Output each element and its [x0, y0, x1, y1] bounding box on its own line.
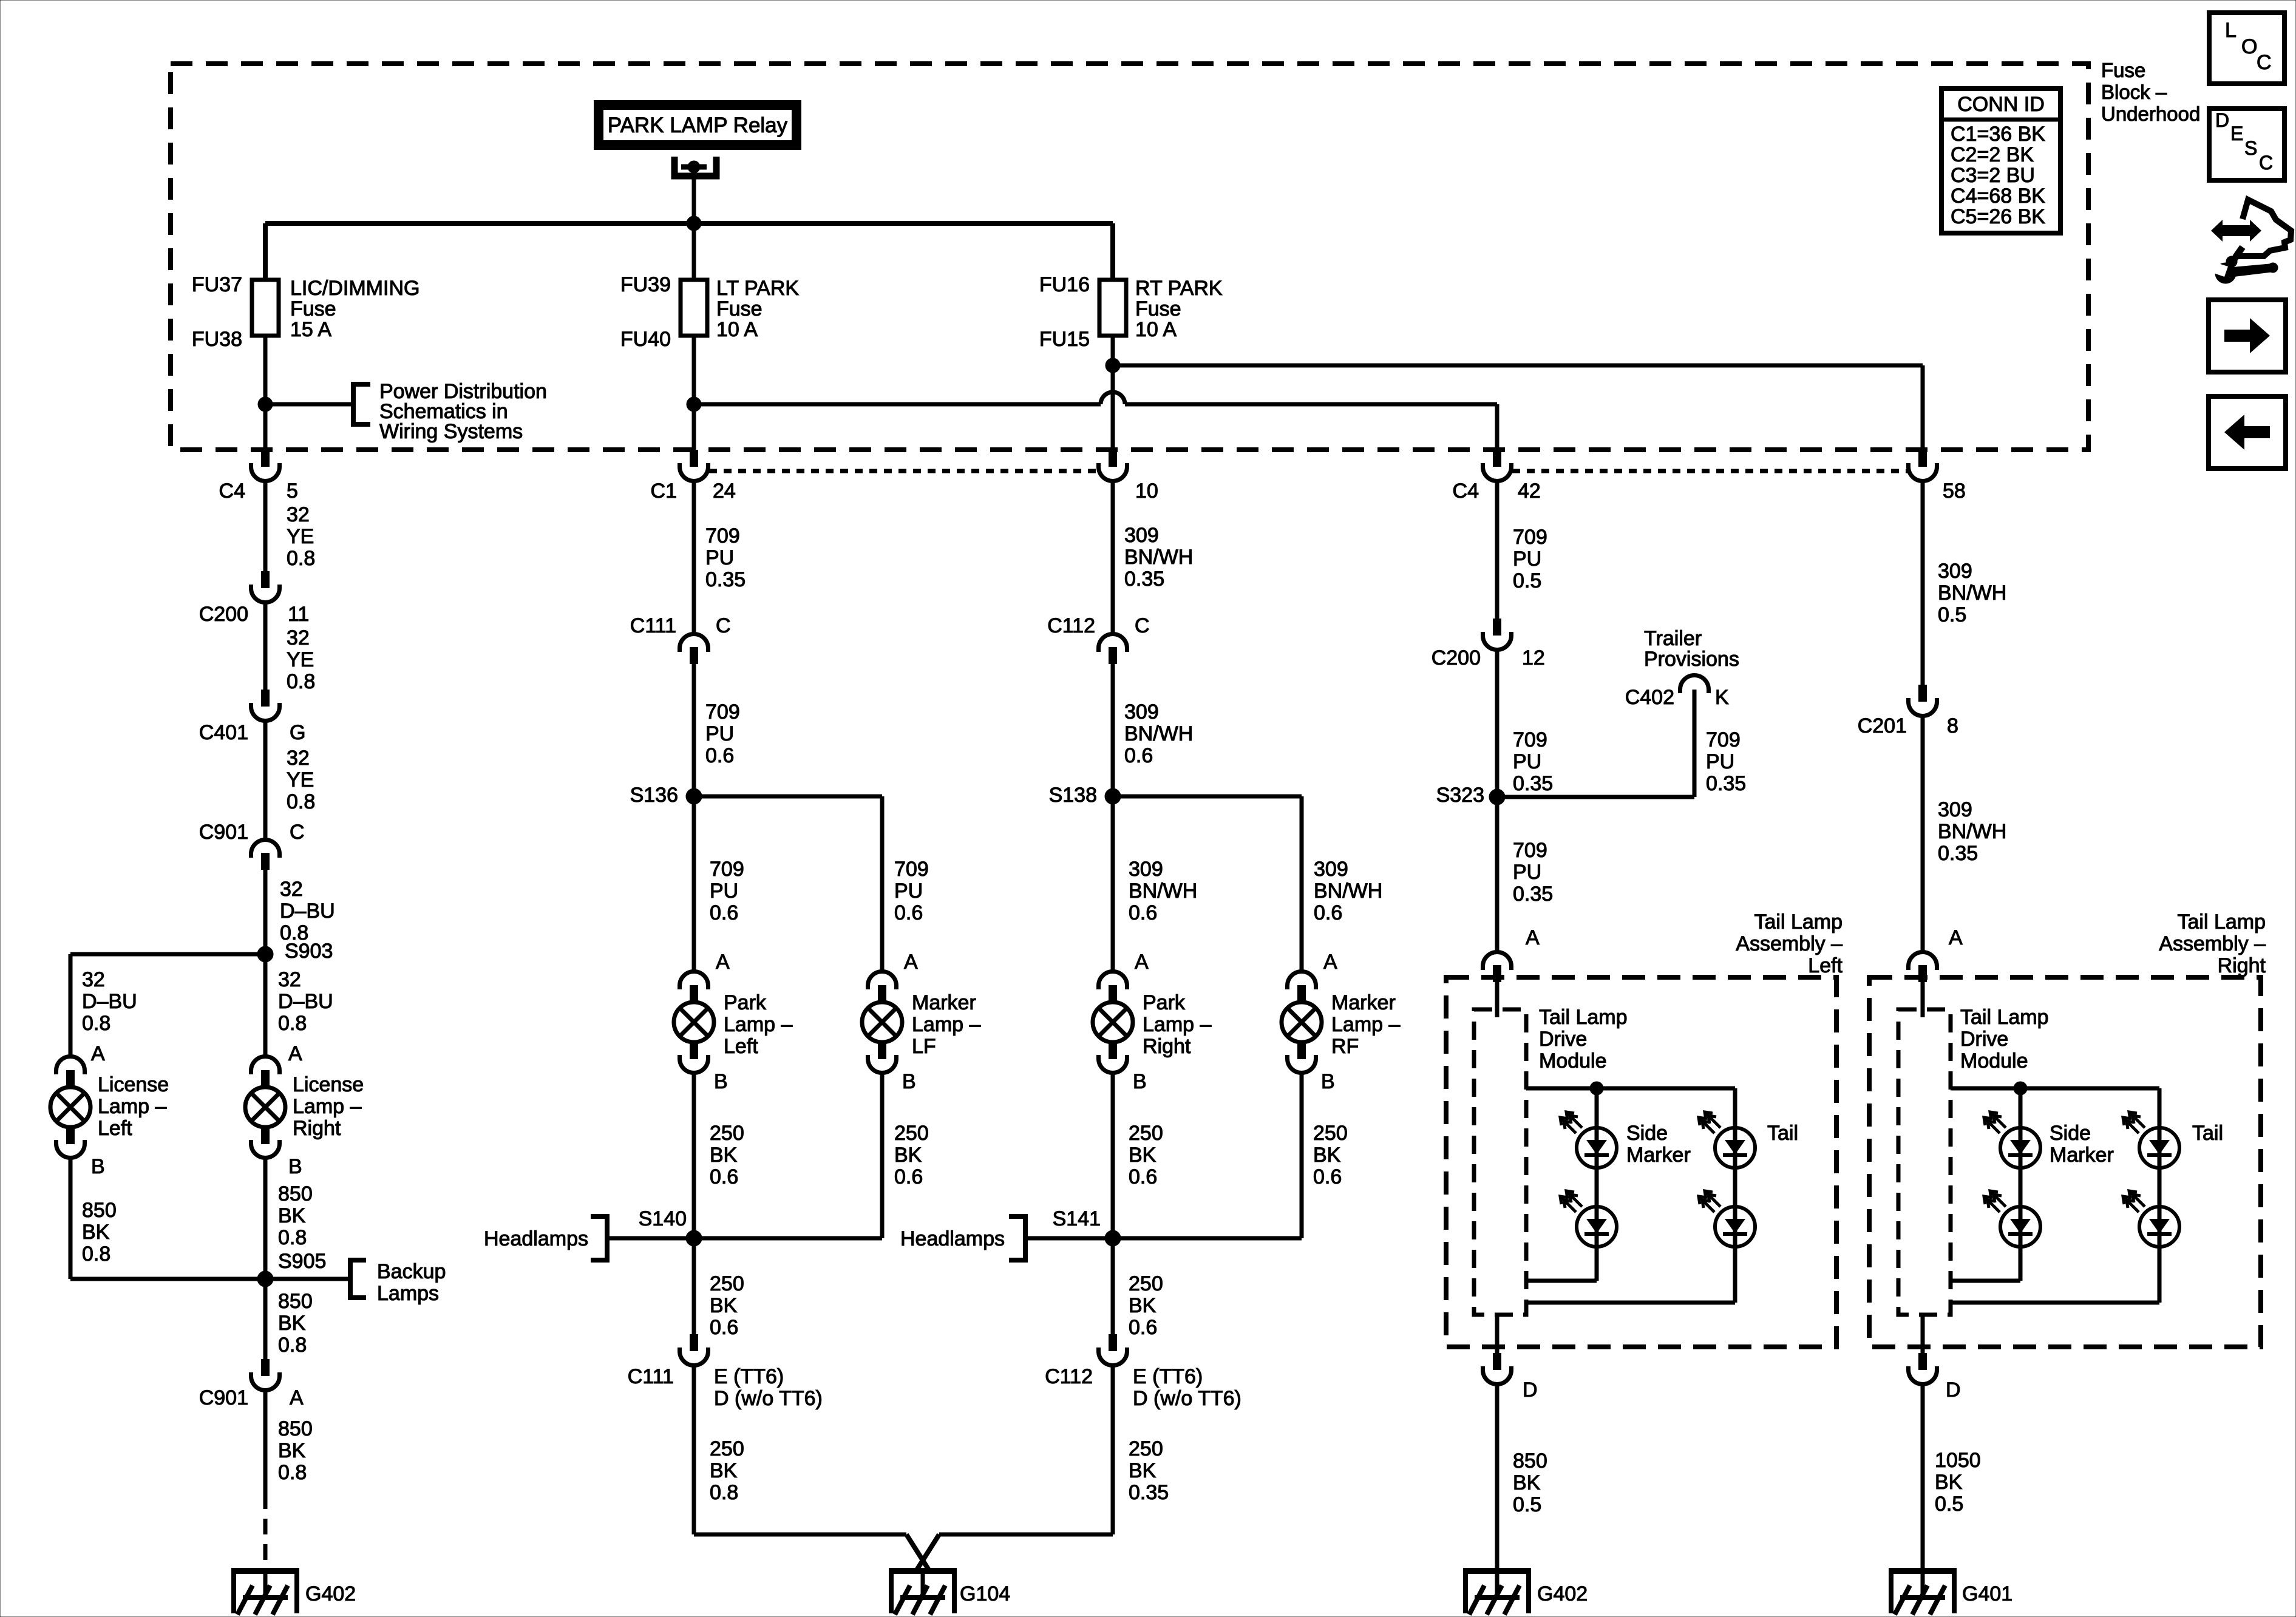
terminal A license right [288, 1042, 302, 1065]
wire 850 BK 0.5 [1497, 1385, 1547, 1568]
svg-text:S138: S138 [1049, 784, 1097, 807]
svg-text:0.8: 0.8 [278, 1012, 307, 1035]
svg-text:Headlamps: Headlamps [900, 1227, 1005, 1250]
svg-text:G402: G402 [1537, 1582, 1588, 1605]
svg-text:11: 11 [288, 603, 309, 626]
svg-text:Lamp –: Lamp – [98, 1095, 166, 1118]
svg-text:BK: BK [278, 1312, 306, 1335]
tail LED string right [1951, 1088, 2159, 1303]
svg-text:32: 32 [280, 878, 303, 901]
wire S903 to license lamp right [265, 954, 333, 1056]
svg-text:32: 32 [82, 968, 105, 991]
forward arrow icon box [2209, 300, 2286, 372]
wire S138 to park lamp right [1113, 796, 1197, 971]
svg-text:PARK LAMP Relay: PARK LAMP Relay [608, 114, 788, 137]
svg-text:D: D [1523, 1378, 1538, 1402]
wire into module right [1921, 982, 1925, 1017]
lamp Park Lamp - Left [674, 972, 792, 1073]
terminal A marker RF [1323, 951, 1337, 974]
svg-text:A: A [290, 1386, 304, 1409]
svg-text:0.6: 0.6 [1129, 1165, 1157, 1188]
svg-text:250: 250 [1129, 1437, 1163, 1460]
svg-text:Marker: Marker [2050, 1144, 2114, 1167]
svg-text:Marker: Marker [1626, 1144, 1691, 1167]
svg-text:309: 309 [1124, 524, 1159, 547]
wire LT park feed to C4-42 with hop [694, 392, 1497, 450]
svg-text:250: 250 [710, 1437, 744, 1460]
svg-text:BK: BK [1935, 1471, 1963, 1494]
svg-text:B: B [288, 1155, 302, 1178]
connector D left [1483, 1353, 1538, 1402]
svg-text:0.5: 0.5 [1938, 603, 1966, 626]
wire 709 PU 0.5 [1497, 480, 1547, 619]
wire S136 to park lamp left [694, 796, 744, 971]
svg-text:PU: PU [705, 722, 734, 745]
svg-text:Marker: Marker [912, 991, 976, 1014]
svg-text:FU38: FU38 [192, 328, 242, 351]
connector C4 pin 5 [219, 450, 298, 503]
connector C112 pin C [1047, 614, 1149, 664]
svg-text:LF: LF [912, 1035, 936, 1058]
LED tail 2 right [2123, 1191, 2179, 1247]
DESC icon box [2209, 109, 2284, 180]
svg-text:CONN ID: CONN ID [1957, 93, 2045, 116]
svg-text:PU: PU [1706, 750, 1734, 773]
svg-text:C112: C112 [1047, 614, 1095, 637]
wire 709 PU 0.35 [694, 480, 746, 634]
svg-text:0.35: 0.35 [1124, 568, 1164, 591]
svg-text:License: License [98, 1073, 169, 1096]
label side marker right [2050, 1122, 2114, 1167]
wire 850 BK 0.8 below S905 [265, 1279, 313, 1359]
fuse FU16/FU15 RT PARK 10A [1039, 273, 1223, 351]
wire RT fuse to border [1111, 336, 1115, 450]
svg-text:D: D [1946, 1378, 1961, 1402]
svg-text:BN/WH: BN/WH [1938, 581, 2006, 605]
lamp Marker Lamp - RF [1282, 972, 1400, 1073]
wire 709 PU 0.35 below S323 [1497, 797, 1553, 952]
ground G402 left [231, 1568, 356, 1615]
connector C200 pin 12 [1432, 619, 1545, 670]
svg-text:PU: PU [1513, 750, 1541, 773]
svg-text:Marker: Marker [1331, 991, 1396, 1014]
LED side marker 2 left [1560, 1191, 1617, 1247]
svg-text:Headlamps: Headlamps [484, 1227, 588, 1250]
svg-text:C: C [716, 614, 731, 637]
svg-text:309: 309 [1938, 798, 1972, 821]
svg-text:309: 309 [1124, 700, 1159, 724]
splice S141 [1053, 1207, 1121, 1246]
svg-text:C: C [290, 821, 305, 844]
lamp License Lamp - Left [50, 1057, 169, 1158]
svg-text:RF: RF [1331, 1035, 1359, 1058]
svg-text:B: B [714, 1070, 728, 1093]
svg-text:C901: C901 [199, 821, 248, 844]
svg-text:C111: C111 [628, 1365, 674, 1388]
svg-text:B: B [1133, 1070, 1147, 1093]
bracket backup lamps [350, 1260, 446, 1305]
LED tail 1 left [1699, 1112, 1755, 1168]
svg-text:D–BU: D–BU [278, 990, 333, 1013]
terminal B park right [1133, 1070, 1147, 1093]
svg-text:709: 709 [894, 858, 929, 881]
wire G104 right approach [916, 1534, 1113, 1571]
splice S903 [257, 940, 333, 963]
wire S138 branch to marker RF [1113, 796, 1382, 971]
svg-text:Underhood: Underhood [2101, 103, 2200, 125]
wire 850 BK 0.8 to ground [265, 1391, 313, 1493]
svg-text:C200: C200 [1432, 646, 1481, 670]
svg-text:Assembly –: Assembly – [1736, 932, 1843, 955]
connector C901 pin A [199, 1359, 304, 1409]
junction relay bus [687, 216, 701, 231]
connector C401 pin G [199, 690, 306, 744]
svg-text:0.35: 0.35 [1706, 772, 1746, 795]
svg-text:B: B [902, 1070, 916, 1093]
wire module right to D [1921, 1315, 1925, 1353]
svg-text:0.6: 0.6 [1314, 901, 1342, 924]
svg-text:0.6: 0.6 [710, 1316, 738, 1339]
LED side marker 1 right [1984, 1112, 2040, 1168]
svg-text:309: 309 [1938, 560, 1972, 583]
svg-text:0.8: 0.8 [82, 1012, 110, 1035]
svg-text:0.35: 0.35 [1129, 1481, 1169, 1504]
ground G104 [889, 1568, 1010, 1615]
wire 32 YE 0.8 seg2 [265, 603, 315, 693]
splice S905 [257, 1250, 326, 1287]
wire 250 BK 0.6 park right [1113, 1073, 1163, 1238]
svg-text:A: A [288, 1042, 302, 1065]
svg-text:0.6: 0.6 [710, 1165, 738, 1188]
svg-text:32: 32 [278, 968, 301, 991]
splice S323 [1436, 784, 1505, 807]
svg-text:D–BU: D–BU [280, 900, 335, 923]
svg-text:32: 32 [287, 626, 310, 649]
svg-text:Side: Side [1626, 1122, 1668, 1145]
relay PARK LAMP Relay [599, 105, 796, 145]
wire 309 BN/WH 0.35 [1113, 480, 1193, 634]
svg-text:Lamp –: Lamp – [1143, 1013, 1211, 1036]
terminal B license left [91, 1155, 105, 1178]
label tail left [1767, 1122, 1798, 1145]
svg-text:BK: BK [1129, 1459, 1156, 1482]
svg-text:0.6: 0.6 [710, 901, 738, 924]
svg-text:BK: BK [1129, 1294, 1156, 1317]
svg-text:C: C [2257, 51, 2272, 74]
svg-text:Trailer: Trailer [1644, 627, 1702, 650]
terminal B marker LF [902, 1070, 916, 1093]
svg-text:YE: YE [287, 768, 314, 792]
lamp Park Lamp - Right [1093, 972, 1211, 1073]
svg-text:BK: BK [278, 1439, 306, 1462]
svg-text:FU39: FU39 [620, 273, 671, 296]
svg-text:Park: Park [1143, 991, 1186, 1014]
svg-text:Wiring Systems: Wiring Systems [379, 420, 523, 443]
svg-text:Side: Side [2050, 1122, 2091, 1145]
svg-text:Lamp –: Lamp – [724, 1013, 792, 1036]
connector C1 pin 24 [651, 450, 736, 503]
svg-text:5: 5 [287, 480, 298, 503]
svg-text:0.8: 0.8 [278, 1226, 307, 1249]
wire 709 PU 0.35 trailer branch [1497, 690, 1746, 797]
svg-text:709: 709 [705, 700, 740, 724]
svg-text:Left: Left [1808, 954, 1843, 977]
svg-text:709: 709 [710, 858, 744, 881]
svg-text:8: 8 [1947, 714, 1958, 737]
svg-text:D (w/o TT6): D (w/o TT6) [714, 1387, 823, 1410]
dashed wire to G402 [263, 1493, 268, 1568]
svg-text:Left: Left [98, 1117, 132, 1140]
svg-text:1050: 1050 [1935, 1449, 1981, 1472]
LED bus right assembly [1951, 1086, 2159, 1091]
svg-text:C5=26 BK: C5=26 BK [1951, 205, 2045, 228]
wire 250 BK 0.6 below S140 [694, 1238, 744, 1339]
connector C111 pin E/D [628, 1334, 823, 1410]
wire 250 BK 0.6 marker LF [694, 1073, 929, 1238]
svg-text:Backup: Backup [377, 1260, 446, 1283]
lamp License Lamp - Right [245, 1057, 364, 1158]
svg-text:A: A [1135, 951, 1149, 974]
connector A into left assembly [1483, 952, 1512, 983]
connector C112 pin E/D [1045, 1334, 1241, 1410]
svg-text:D: D [2215, 109, 2229, 131]
svg-text:Lamps: Lamps [377, 1282, 439, 1305]
side marker LED string right [1951, 1088, 2020, 1281]
svg-text:C: C [1135, 614, 1150, 637]
svg-text:Drive: Drive [1960, 1028, 2008, 1051]
wire license left return [70, 1277, 265, 1281]
svg-text:D–BU: D–BU [82, 990, 137, 1013]
svg-text:S323: S323 [1436, 784, 1484, 807]
svg-text:Module: Module [1539, 1049, 1607, 1073]
bus wire B+ feed [265, 223, 1113, 280]
svg-text:LT PARK: LT PARK [716, 277, 799, 300]
connector C4 pin 42 [1453, 450, 1541, 503]
tail lamp assembly left dashed box [1446, 910, 1843, 1347]
svg-text:E (TT6): E (TT6) [714, 1365, 784, 1388]
connector C111 pin C [630, 614, 731, 664]
svg-text:0.5: 0.5 [1513, 1493, 1541, 1516]
splice S140 [639, 1207, 702, 1246]
svg-text:0.5: 0.5 [1513, 569, 1541, 592]
svg-text:10 A: 10 A [716, 318, 758, 341]
svg-text:FU16: FU16 [1039, 273, 1090, 296]
svg-text:0.8: 0.8 [278, 1334, 307, 1357]
svg-text:0.6: 0.6 [1129, 901, 1157, 924]
wire 1050 BK 0.5 [1923, 1385, 1981, 1568]
svg-text:709: 709 [1513, 526, 1547, 549]
svg-text:C112: C112 [1045, 1365, 1093, 1388]
lamp Marker Lamp - LF [862, 972, 980, 1073]
svg-text:Lamp –: Lamp – [1331, 1013, 1400, 1036]
svg-text:BK: BK [710, 1144, 738, 1167]
svg-text:0.8: 0.8 [82, 1242, 110, 1266]
svg-text:10: 10 [1135, 480, 1158, 503]
svg-text:C200: C200 [199, 603, 248, 626]
wire G104 left approach [694, 1534, 929, 1571]
terminal A marker LF [904, 951, 918, 974]
svg-text:A: A [1323, 951, 1337, 974]
connector C901 pin C [199, 821, 305, 870]
svg-text:A: A [1949, 926, 1963, 949]
connector D right [1909, 1353, 1961, 1402]
svg-text:B: B [1321, 1070, 1335, 1093]
svg-text:0.6: 0.6 [1313, 1165, 1342, 1188]
svg-text:C402: C402 [1625, 686, 1674, 709]
LED side marker 1 left [1560, 1112, 1617, 1168]
svg-text:C201: C201 [1858, 714, 1907, 737]
svg-text:LIC/DIMMING: LIC/DIMMING [290, 277, 419, 300]
svg-text:0.35: 0.35 [1938, 842, 1978, 865]
ground G401 [1889, 1568, 2012, 1615]
svg-text:709: 709 [1513, 839, 1547, 862]
terminal A park right [1135, 951, 1149, 974]
svg-text:42: 42 [1518, 480, 1541, 503]
svg-text:Provisions: Provisions [1644, 648, 1739, 671]
svg-text:709: 709 [705, 524, 740, 547]
svg-text:Right: Right [2218, 954, 2266, 977]
svg-text:Left: Left [724, 1035, 758, 1058]
terminal A park left [716, 951, 730, 974]
svg-text:D (w/o TT6): D (w/o TT6) [1133, 1387, 1241, 1410]
wire 250 BK 0.6 park left [694, 1073, 744, 1238]
svg-text:BN/WH: BN/WH [1124, 546, 1193, 569]
svg-text:Tail Lamp: Tail Lamp [1539, 1006, 1628, 1029]
wire LIC fuse to border [263, 336, 268, 450]
svg-text:250: 250 [1313, 1122, 1348, 1145]
svg-text:S140: S140 [639, 1207, 687, 1230]
svg-text:Fuse: Fuse [290, 297, 336, 320]
wire 32 YE 0.8 seg1 [265, 480, 315, 571]
svg-text:BK: BK [82, 1221, 110, 1244]
svg-text:C2=2 BK: C2=2 BK [1951, 143, 2034, 166]
svg-text:E: E [2230, 123, 2243, 144]
svg-text:PU: PU [1513, 547, 1541, 571]
connector C201 pin 8 [1858, 685, 1958, 737]
wire S903 branch to license lamp left [70, 954, 265, 1056]
junction LED bus right [2014, 1082, 2027, 1095]
tail lamp assembly right dashed box [1869, 910, 2266, 1347]
terminal B marker RF [1321, 1070, 1335, 1093]
wire into module left [1495, 982, 1500, 1017]
svg-text:C4=68 BK: C4=68 BK [1951, 185, 2045, 208]
svg-text:Fuse: Fuse [2101, 59, 2145, 81]
fuse FU39/FU40 LT PARK 10A [620, 273, 800, 351]
svg-text:C1: C1 [651, 480, 677, 503]
svg-text:C401: C401 [199, 721, 248, 744]
terminal A license left [91, 1042, 105, 1065]
svg-text:YE: YE [287, 525, 314, 548]
svg-text:S136: S136 [630, 784, 678, 807]
svg-text:12: 12 [1522, 646, 1545, 670]
svg-text:Tail: Tail [1767, 1122, 1798, 1145]
splice S136 [630, 784, 702, 807]
svg-text:32: 32 [287, 747, 310, 770]
svg-text:Drive: Drive [1539, 1028, 1587, 1051]
svg-text:C4: C4 [1453, 480, 1479, 503]
svg-text:0.8: 0.8 [287, 670, 315, 693]
svg-text:FU15: FU15 [1039, 328, 1090, 351]
svg-text:K: K [1715, 686, 1729, 709]
svg-text:G104: G104 [960, 1582, 1010, 1605]
svg-text:0.5: 0.5 [1935, 1493, 1963, 1516]
svg-text:FU40: FU40 [620, 328, 671, 351]
svg-text:24: 24 [713, 480, 736, 503]
LED tail 1 right [2123, 1112, 2179, 1168]
LED tail 2 left [1699, 1191, 1755, 1247]
connector C1 body dashed line [709, 469, 1098, 473]
svg-text:250: 250 [894, 1122, 929, 1145]
svg-text:250: 250 [710, 1272, 744, 1295]
label tail right [2192, 1122, 2223, 1145]
svg-text:250: 250 [710, 1122, 744, 1145]
svg-text:Tail: Tail [2192, 1122, 2223, 1145]
svg-text:0.6: 0.6 [705, 744, 734, 767]
LED bus left assembly [1526, 1086, 1735, 1091]
svg-text:309: 309 [1129, 858, 1163, 881]
relay pin terminal [674, 157, 716, 176]
wire 309 BN/WH 0.35 [1923, 716, 2006, 952]
svg-text:709: 709 [1706, 728, 1741, 751]
svg-text:G401: G401 [1962, 1582, 2012, 1605]
svg-text:0.8: 0.8 [287, 790, 315, 813]
svg-text:0.35: 0.35 [1513, 883, 1553, 906]
wire 250 BK 0.8 to ground [694, 1366, 744, 1534]
svg-text:15 A: 15 A [290, 318, 331, 341]
svg-text:O: O [2241, 35, 2257, 58]
svg-text:Module: Module [1960, 1049, 2028, 1073]
svg-text:0.6: 0.6 [894, 901, 923, 924]
svg-text:BN/WH: BN/WH [1129, 880, 1197, 903]
svg-text:A: A [904, 951, 918, 974]
svg-text:Fuse: Fuse [716, 297, 763, 320]
svg-text:BK: BK [278, 1204, 306, 1227]
connector C1 pin 10 [1099, 450, 1158, 503]
svg-text:BN/WH: BN/WH [1314, 880, 1382, 903]
svg-text:FU37: FU37 [192, 273, 242, 296]
headlamps callout left [484, 1216, 694, 1260]
wire 32 YE 0.8 seg3 [265, 721, 315, 839]
svg-text:0.35: 0.35 [1513, 772, 1553, 795]
svg-text:A: A [1526, 926, 1540, 949]
junction RT park feed [1106, 358, 1120, 373]
svg-text:Lamp –: Lamp – [912, 1013, 980, 1036]
svg-text:850: 850 [1513, 1449, 1547, 1473]
svg-text:250: 250 [1129, 1272, 1163, 1295]
svg-text:0.6: 0.6 [1124, 744, 1153, 767]
svg-text:850: 850 [82, 1199, 117, 1222]
wire LT fuse to border [692, 336, 696, 450]
LOC icon box [2209, 13, 2284, 84]
svg-text:Assembly –: Assembly – [2159, 932, 2266, 955]
connector C4 body dashed line [1512, 469, 1907, 473]
wire S905 to backup lamps callout [265, 1277, 350, 1281]
svg-text:BN/WH: BN/WH [1124, 722, 1193, 745]
wire 850 BK 0.8 license left down [70, 1158, 117, 1279]
connector A into right assembly [1909, 952, 1937, 983]
svg-text:C: C [2259, 152, 2273, 174]
svg-text:BK: BK [1129, 1144, 1156, 1167]
svg-text:G402: G402 [305, 1582, 356, 1605]
svg-text:850: 850 [278, 1417, 313, 1440]
svg-text:10 A: 10 A [1135, 318, 1177, 341]
svg-text:0.8: 0.8 [278, 1461, 307, 1484]
wire S136 branch to marker LF [694, 796, 929, 971]
svg-text:S905: S905 [278, 1250, 326, 1273]
LED side marker 2 right [1984, 1191, 2040, 1247]
svg-text:BK: BK [1513, 1471, 1541, 1494]
svg-text:E (TT6): E (TT6) [1133, 1365, 1203, 1388]
